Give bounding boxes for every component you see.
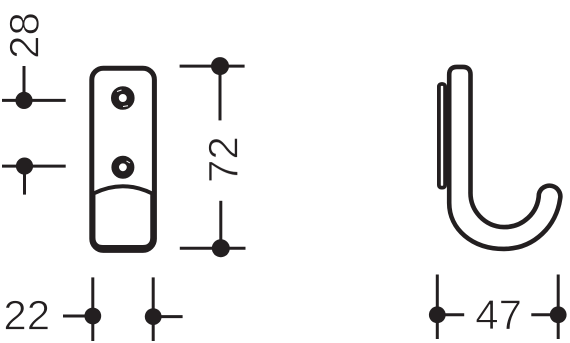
dim marker F: plate right edge [145, 277, 183, 341]
screw hole bottom [115, 160, 130, 175]
dim marker C: plate top extension [180, 57, 245, 120]
svg-text:47: 47 [475, 291, 522, 338]
side view: J-hook body [449, 67, 560, 249]
svg-text:22: 22 [3, 292, 50, 339]
dim marker B: hole2 extension line [2, 158, 66, 195]
dim marker A: hole1 extension line [2, 66, 66, 109]
front view: hook arm front face (lower section) [94, 186, 153, 247]
front view: plate outline [92, 68, 155, 250]
dim marker G: hook back edge [429, 275, 464, 340]
dim marker H: hook front edge [531, 275, 566, 340]
side view: wall plate strip [439, 84, 445, 188]
svg-text:72: 72 [200, 136, 247, 183]
svg-text:28: 28 [1, 12, 48, 59]
dim marker D: plate bottom extension [180, 201, 246, 257]
dim marker E: plate left edge [63, 277, 101, 341]
screw hole top [115, 90, 131, 107]
